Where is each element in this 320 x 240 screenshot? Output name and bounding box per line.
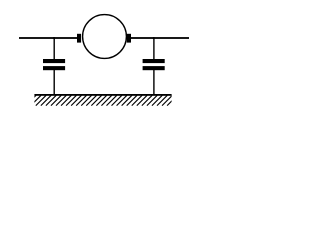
brush left of motor M1 [77,34,81,43]
wire from node B to capacitor C2 [153,38,154,60]
wire right supply segment [131,37,189,39]
capacitor C1 [43,59,65,70]
motor M1 [83,15,127,59]
wire from capacitor C2 to ground [153,70,154,96]
wire left supply segment [19,37,78,39]
wire from capacitor C1 to ground [54,70,55,96]
brush right of motor M1 [127,34,131,43]
node A junction left [53,37,55,39]
ground [26,94,178,106]
wire from node A to capacitor C1 [54,38,55,60]
capacitor C2 [143,59,165,70]
node B junction right [153,37,155,39]
